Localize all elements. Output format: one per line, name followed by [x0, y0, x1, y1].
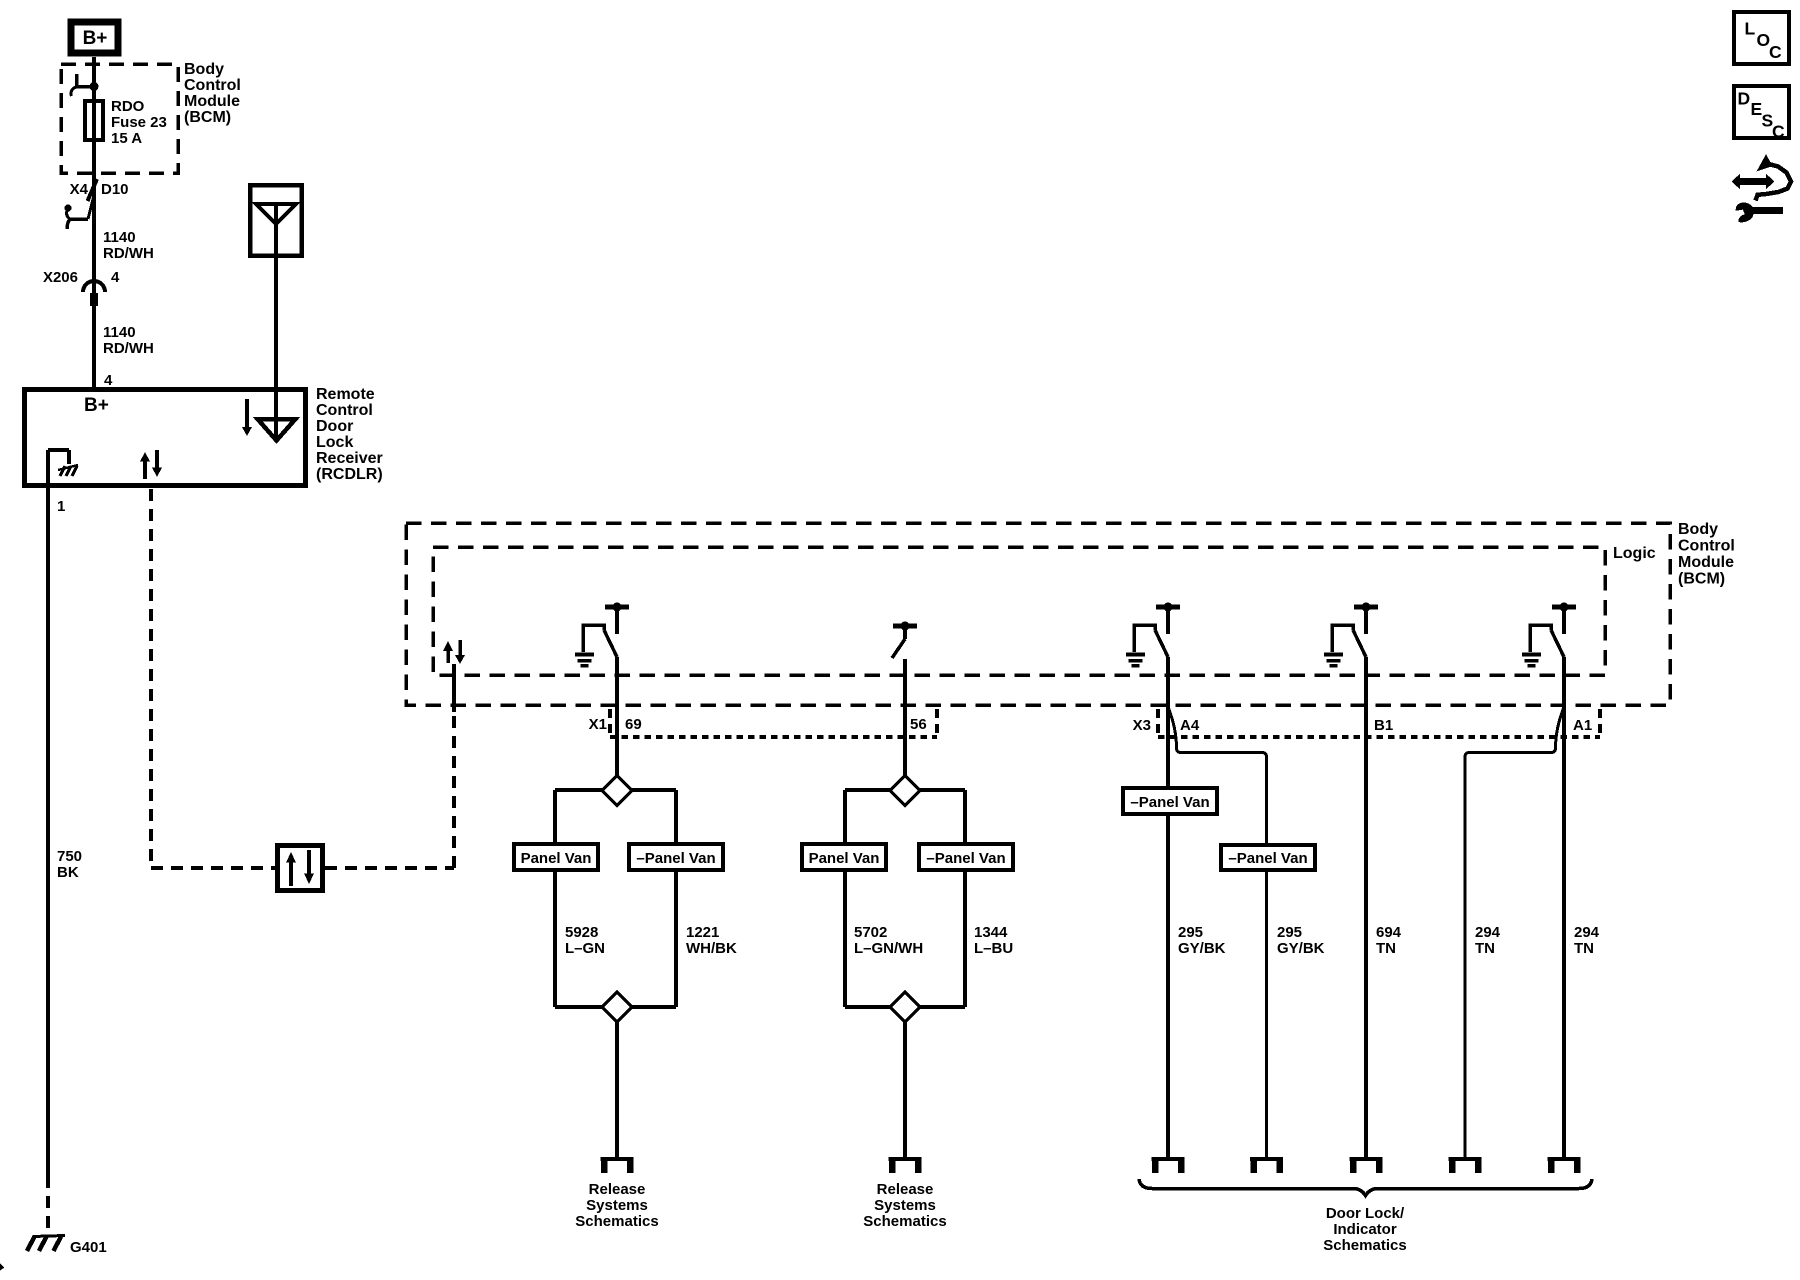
svg-text:Lock: Lock [316, 434, 353, 451]
svg-text:Panel Van: Panel Van [809, 850, 880, 867]
svg-text:BK: BK [57, 864, 79, 881]
svg-text:Release: Release [877, 1181, 934, 1198]
svg-text:5702: 5702 [854, 924, 887, 941]
svg-text:69: 69 [625, 716, 642, 733]
svg-text:D10: D10 [101, 181, 129, 198]
svg-text:56: 56 [910, 716, 927, 733]
svg-text:Door Lock/: Door Lock/ [1326, 1205, 1405, 1222]
svg-text:RD/WH: RD/WH [103, 340, 154, 357]
svg-text:C: C [1772, 122, 1785, 142]
svg-text:L–GN: L–GN [565, 940, 605, 957]
svg-text:295: 295 [1277, 924, 1302, 941]
svg-text:Systems: Systems [586, 1197, 648, 1214]
svg-text:294: 294 [1574, 924, 1600, 941]
svg-text:X4: X4 [70, 181, 89, 198]
svg-text:TN: TN [1574, 940, 1594, 957]
svg-text:Release: Release [589, 1181, 646, 1198]
svg-text:4: 4 [111, 269, 120, 286]
svg-text:D: D [1738, 89, 1751, 109]
svg-text:Fuse 23: Fuse 23 [111, 114, 167, 131]
svg-text:Logic: Logic [1613, 545, 1656, 562]
svg-text:L: L [1745, 19, 1756, 39]
svg-text:295: 295 [1178, 924, 1203, 941]
svg-text:1344: 1344 [974, 924, 1008, 941]
svg-text:Door: Door [316, 418, 353, 435]
svg-text:L–GN/WH: L–GN/WH [854, 940, 923, 957]
svg-text:Indicator: Indicator [1333, 1221, 1397, 1238]
svg-text:X1: X1 [589, 716, 607, 733]
svg-text:15 A: 15 A [111, 130, 142, 147]
svg-text:1: 1 [57, 498, 65, 515]
svg-text:Control: Control [316, 402, 373, 419]
svg-text:Remote: Remote [316, 386, 375, 403]
svg-text:Schematics: Schematics [575, 1213, 658, 1230]
svg-text:–Panel Van: –Panel Van [926, 850, 1005, 867]
svg-text:Module: Module [184, 93, 240, 110]
svg-text:Schematics: Schematics [1323, 1237, 1406, 1254]
svg-text:Systems: Systems [874, 1197, 936, 1214]
svg-text:Schematics: Schematics [863, 1213, 946, 1230]
svg-text:G401: G401 [70, 1239, 107, 1256]
svg-text:A1: A1 [1573, 717, 1592, 734]
svg-text:Receiver: Receiver [316, 450, 383, 467]
svg-text:Panel Van: Panel Van [521, 850, 592, 867]
svg-text:(BCM): (BCM) [1678, 571, 1725, 588]
svg-text:(RCDLR): (RCDLR) [316, 466, 383, 483]
svg-text:750: 750 [57, 848, 82, 865]
svg-text:GY/BK: GY/BK [1277, 940, 1325, 957]
svg-text:1140: 1140 [103, 229, 136, 246]
svg-text:1221: 1221 [686, 924, 719, 941]
svg-text:RD/WH: RD/WH [103, 245, 154, 262]
svg-text:RDO: RDO [111, 98, 145, 115]
svg-text:TN: TN [1475, 940, 1495, 957]
svg-text:E: E [1751, 99, 1763, 119]
svg-text:B+: B+ [84, 395, 109, 416]
svg-text:–Panel Van: –Panel Van [636, 850, 715, 867]
svg-text:L–BU: L–BU [974, 940, 1013, 957]
svg-text:294: 294 [1475, 924, 1501, 941]
svg-text:(BCM): (BCM) [184, 109, 231, 126]
svg-text:–Panel Van: –Panel Van [1130, 794, 1209, 811]
svg-text:B1: B1 [1374, 717, 1393, 734]
svg-text:TN: TN [1376, 940, 1396, 957]
svg-text:1140: 1140 [103, 324, 136, 341]
svg-text:A4: A4 [1180, 717, 1200, 734]
svg-text:5928: 5928 [565, 924, 598, 941]
svg-text:Body: Body [1678, 521, 1718, 538]
svg-text:GY/BK: GY/BK [1178, 940, 1226, 957]
svg-text:Body: Body [184, 61, 224, 78]
svg-text:C: C [1769, 42, 1782, 62]
svg-text:Module: Module [1678, 554, 1734, 571]
svg-text:–Panel Van: –Panel Van [1228, 850, 1307, 867]
svg-text:4: 4 [104, 372, 113, 389]
svg-text:X3: X3 [1133, 717, 1151, 734]
svg-text:WH/BK: WH/BK [686, 940, 737, 957]
svg-text:X206: X206 [43, 269, 78, 286]
svg-text:694: 694 [1376, 924, 1402, 941]
svg-text:Control: Control [184, 77, 241, 94]
svg-text:B+: B+ [83, 28, 108, 49]
svg-text:Control: Control [1678, 538, 1735, 555]
